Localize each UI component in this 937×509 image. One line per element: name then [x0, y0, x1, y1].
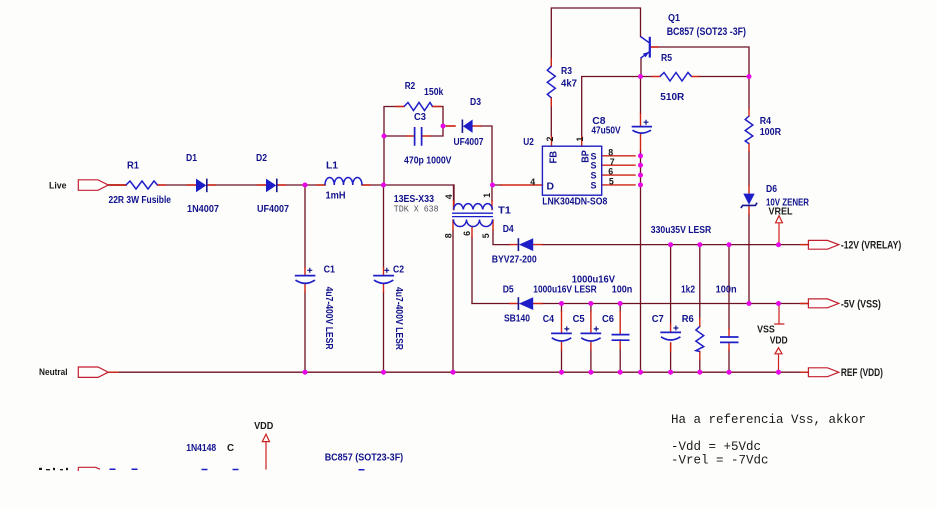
svg-text:4k7: 4k7 [561, 79, 577, 90]
svg-text:C4: C4 [543, 314, 554, 325]
svg-text:D4: D4 [503, 224, 514, 235]
svg-text:S: S [591, 180, 598, 191]
svg-text:TDK X 638: TDK X 638 [394, 205, 439, 215]
svg-text:8: 8 [444, 233, 454, 238]
svg-text:D2: D2 [256, 153, 267, 164]
svg-text:1k2: 1k2 [681, 285, 695, 296]
svg-text:100n: 100n [716, 285, 737, 296]
svg-text:7: 7 [610, 157, 615, 167]
svg-text:R6: R6 [682, 314, 694, 325]
svg-text:-Vdd = +5Vdc: -Vdd = +5Vdc [671, 440, 761, 454]
svg-text:R5: R5 [661, 53, 672, 64]
svg-text:VDD: VDD [254, 420, 274, 432]
svg-text:C3: C3 [414, 112, 426, 123]
svg-text:BC857 (SOT23 -3F): BC857 (SOT23 -3F) [667, 26, 746, 38]
svg-text:22R 3W Fusible: 22R 3W Fusible [109, 195, 172, 206]
svg-text:1mH: 1mH [326, 190, 346, 201]
svg-text:SB140: SB140 [504, 314, 530, 325]
svg-text:Live: Live [49, 180, 67, 191]
svg-text:R1: R1 [127, 161, 139, 172]
svg-text:REF (VDD): REF (VDD) [841, 367, 883, 379]
svg-text:Neutral: Neutral [39, 367, 68, 378]
svg-text:150k: 150k [424, 87, 444, 98]
svg-text:BYV27-200: BYV27-200 [492, 255, 537, 266]
svg-text:6: 6 [462, 231, 472, 236]
svg-text:100n: 100n [612, 285, 633, 296]
svg-text:510R: 510R [660, 92, 685, 103]
svg-text:LNK304DN-SO8: LNK304DN-SO8 [542, 197, 607, 208]
svg-text:D3: D3 [470, 97, 481, 108]
svg-text:C5: C5 [573, 314, 585, 325]
svg-text:U2: U2 [523, 137, 534, 148]
svg-text:UF4007: UF4007 [257, 204, 289, 215]
svg-text:4: 4 [444, 194, 454, 199]
svg-text:4u7-400V LESR: 4u7-400V LESR [323, 287, 334, 351]
svg-text:FB: FB [548, 151, 559, 164]
svg-text:C6: C6 [602, 314, 614, 325]
svg-text:-Vrel = -7Vdc: -Vrel = -7Vdc [671, 453, 769, 467]
svg-text:-5V (VSS): -5V (VSS) [841, 298, 881, 310]
svg-text:C2: C2 [393, 265, 404, 276]
svg-text:D5: D5 [503, 285, 514, 296]
svg-text:13ES-X33: 13ES-X33 [394, 194, 435, 205]
svg-text:330u35V LESR: 330u35V LESR [651, 225, 712, 236]
svg-text:Ha a referencia Vss, akkor: Ha a referencia Vss, akkor [671, 413, 866, 427]
svg-text:1000u16V: 1000u16V [572, 275, 615, 286]
svg-text:D1: D1 [186, 153, 197, 164]
svg-text:470p 1000V: 470p 1000V [404, 156, 452, 167]
svg-text:T1: T1 [498, 206, 511, 217]
svg-text:5: 5 [481, 233, 491, 238]
svg-text:L1: L1 [326, 161, 338, 172]
svg-text:1: 1 [575, 137, 585, 142]
svg-text:4u7-400V LESR: 4u7-400V LESR [393, 287, 404, 351]
svg-text:R4: R4 [760, 116, 772, 127]
svg-text:1N4148: 1N4148 [186, 443, 216, 454]
svg-text:C7: C7 [652, 314, 664, 325]
svg-text:2: 2 [545, 137, 555, 142]
svg-text:R2: R2 [405, 81, 416, 92]
svg-text:-12V (VRELAY): -12V (VRELAY) [841, 240, 902, 252]
svg-text:D: D [547, 182, 555, 193]
svg-text:VREL: VREL [769, 205, 793, 217]
svg-text:1N4007: 1N4007 [187, 204, 219, 215]
svg-text:4: 4 [530, 177, 535, 187]
svg-text:8: 8 [608, 147, 613, 157]
svg-text:5: 5 [609, 176, 614, 186]
svg-text:C: C [227, 442, 234, 454]
svg-text:VDD: VDD [770, 335, 788, 347]
svg-text:R3: R3 [561, 66, 572, 77]
svg-text:C1: C1 [324, 265, 336, 276]
svg-text:Q1: Q1 [668, 13, 680, 24]
svg-text:100R: 100R [760, 127, 782, 138]
svg-text:UF4007: UF4007 [454, 137, 484, 148]
svg-text:1: 1 [482, 193, 492, 198]
svg-text:47u50V: 47u50V [591, 126, 620, 137]
svg-text:D6: D6 [766, 184, 777, 195]
svg-text:6: 6 [608, 167, 613, 177]
svg-text:1000u16V LESR: 1000u16V LESR [533, 285, 597, 296]
svg-text:BC857 (SOT23-3F): BC857 (SOT23-3F) [325, 453, 404, 464]
